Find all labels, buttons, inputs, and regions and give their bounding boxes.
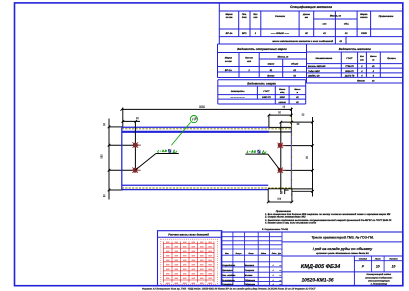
- svg-text:4. Катет швов 5 мм, если не ук: 4. Катет швов 5 мм, если не указано особ…: [264, 222, 317, 225]
- svg-text:Масса: Масса: [279, 88, 286, 91]
- svg-text:41: 41: [344, 32, 348, 35]
- svg-text:Примеч.: Примеч.: [387, 57, 396, 60]
- svg-text:5915-70: 5915-70: [345, 70, 354, 73]
- svg-text:Ведомость сварки: Ведомость сварки: [247, 81, 276, 85]
- svg-text:І ряд на складе руды по объект: І ряд на складе руды по объекту: [313, 247, 374, 251]
- svg-text:общ: общ: [344, 23, 349, 26]
- svg-text:мм: мм: [305, 16, 309, 19]
- svg-text:Примечание: Примечание: [379, 15, 394, 18]
- svg-text:Гайки М20: Гайки М20: [308, 70, 320, 73]
- svg-text:9467-75: 9467-75: [262, 96, 271, 99]
- svg-text:Масса: Масса: [294, 88, 301, 91]
- svg-text:Длина: Длина: [302, 13, 311, 16]
- svg-text:стали: стали: [360, 16, 368, 19]
- svg-text:Проверил: Проверил: [222, 269, 233, 272]
- svg-text:Разработал: Разработал: [222, 264, 236, 267]
- svg-text:эл-та: эл-та: [225, 60, 233, 63]
- svg-text:Листов: Листов: [388, 258, 398, 261]
- svg-text:марки: марки: [268, 63, 275, 66]
- svg-text:Лист: Лист: [374, 258, 381, 261]
- svg-text:10: 10: [392, 265, 396, 269]
- svg-text:БР-1а: БР-1а: [226, 32, 233, 35]
- svg-text:1. Все отверстия для болтов М2: 1. Все отверстия для болтов М20 сверлить…: [265, 213, 390, 216]
- svg-text:42: 42: [304, 32, 308, 35]
- svg-text:Нач. отдела: Нач. отдела: [222, 274, 236, 277]
- svg-text:Масса: Масса: [370, 55, 377, 58]
- svg-text:11371-78: 11371-78: [345, 75, 355, 78]
- svg-text:Наименование: Наименование: [315, 57, 333, 60]
- svg-text:Кол.уч: Кол.уч: [236, 252, 243, 255]
- svg-text:№док: №док: [261, 252, 266, 255]
- svg-text:Болты М20х60: Болты М20х60: [308, 65, 326, 68]
- svg-text:Образцов: Образцов: [245, 279, 256, 282]
- svg-text:2. Сварку вести электродами Э4: 2. Сварку вести электродами Э42: [264, 216, 306, 219]
- svg-text:Формат А3 Копировал: база пр.: Формат А3 Копировал: база пр. ГМЗ - КМД …: [142, 288, 316, 291]
- svg-text:Смирнов: Смирнов: [245, 269, 255, 272]
- svg-text:Трест оргтехстрой ГМЗ. № ГОЗ-: Трест оргтехстрой ГМЗ. № ГОЗ-ГМ.: [311, 236, 373, 240]
- svg-text:Новокузнецкий отдел: Новокузнецкий отдел: [367, 273, 392, 276]
- svg-text:общ: общ: [280, 91, 284, 94]
- svg-text:эл-та: эл-та: [226, 16, 234, 19]
- svg-text:Поз.: Поз.: [242, 13, 247, 16]
- svg-text:Масса, кг: Масса, кг: [330, 15, 342, 18]
- svg-text:—: —: [278, 265, 281, 267]
- svg-text:шт: шт: [253, 16, 257, 19]
- svg-text:Итого: Итого: [357, 80, 365, 83]
- svg-text:Стадия: Стадия: [359, 258, 368, 261]
- svg-text:шт: шт: [323, 23, 327, 26]
- svg-text:Волков: Волков: [245, 274, 253, 277]
- svg-text:Образцов: Образцов: [245, 283, 256, 286]
- svg-text:шт: шт: [360, 58, 364, 61]
- svg-text:Утвердил: Утвердил: [222, 283, 233, 286]
- svg-text:шт: шт: [247, 60, 251, 63]
- svg-text:10520-КМ1-36: 10520-КМ1-36: [301, 278, 333, 284]
- svg-text:Марка: Марка: [225, 57, 233, 60]
- svg-text:Шайбы 20: Шайбы 20: [308, 75, 320, 78]
- svg-text:БР-1а: БР-1а: [225, 69, 232, 72]
- svg-text:Ведомость отправочных марок: Ведомость отправочных марок: [237, 47, 287, 51]
- svg-text:Кол: Кол: [253, 13, 258, 16]
- svg-text:1450: 1450: [280, 96, 286, 99]
- svg-text:общая: общая: [291, 63, 299, 66]
- svg-text:5. Огрунтовать ГФ-021: 5. Огрунтовать ГФ-021: [262, 228, 289, 231]
- svg-text:Электроды: Электроды: [231, 90, 245, 93]
- svg-text:С245: С245: [361, 32, 367, 35]
- svg-text:масса наплавленного металла и: масса наплавленного металла и всех соеди…: [272, 40, 333, 43]
- svg-text:КМД-805 ФБ34: КМД-805 ФБ34: [301, 264, 341, 270]
- svg-text:10: 10: [376, 265, 380, 269]
- svg-text:Н.контроль: Н.контроль: [222, 279, 235, 282]
- svg-text:Ведомость метизов: Ведомость метизов: [339, 47, 371, 51]
- svg-text:Ванюков: Ванюков: [245, 264, 255, 267]
- svg-text:стальконструкция: стальконструкция: [368, 279, 390, 282]
- svg-text:—: —: [278, 270, 281, 272]
- svg-text:Марка: Марка: [225, 13, 233, 16]
- svg-text:ГОСТ: ГОСТ: [263, 90, 270, 93]
- svg-text:7798-70: 7798-70: [345, 65, 354, 68]
- svg-text:г. Новокузнецк: г. Новокузнецк: [371, 283, 388, 286]
- svg-text:Кол-во: Кол-во: [245, 57, 253, 60]
- svg-text:Сечение: Сечение: [275, 15, 286, 18]
- svg-text:Масса, т: Масса, т: [278, 55, 290, 58]
- svg-text:БР1: БР1: [242, 32, 247, 35]
- svg-text:—— 300х10 ——: —— 300х10 ——: [270, 32, 290, 35]
- svg-text:—: —: [278, 280, 281, 282]
- svg-text:дет: дет: [242, 16, 247, 19]
- svg-text:Марка: Марка: [360, 13, 368, 16]
- svg-text:института Сибпроект-: института Сибпроект-: [365, 276, 393, 279]
- svg-text:ГОСТ: ГОСТ: [346, 57, 353, 60]
- svg-text:—: —: [278, 275, 281, 277]
- svg-text:Примечания:: Примечания:: [276, 210, 292, 213]
- svg-text:итого: итого: [279, 101, 287, 104]
- svg-text:41: 41: [269, 69, 273, 72]
- svg-text:Всего: Всего: [267, 74, 275, 77]
- svg-text:Расчет массы всех деталей: Расчет массы всех деталей: [168, 232, 209, 236]
- svg-text:нулевого цикла. Монтажные схем: нулевого цикла. Монтажные схемы балок Б1: [316, 252, 369, 255]
- svg-text:Лист: Лист: [248, 252, 254, 255]
- svg-text:— — — — —: — — — — —: [230, 97, 246, 99]
- svg-text:Спецификация металла: Спецификация металла: [290, 5, 332, 9]
- svg-text:Дт: Дт: [277, 252, 281, 255]
- svg-text:—: —: [278, 284, 281, 286]
